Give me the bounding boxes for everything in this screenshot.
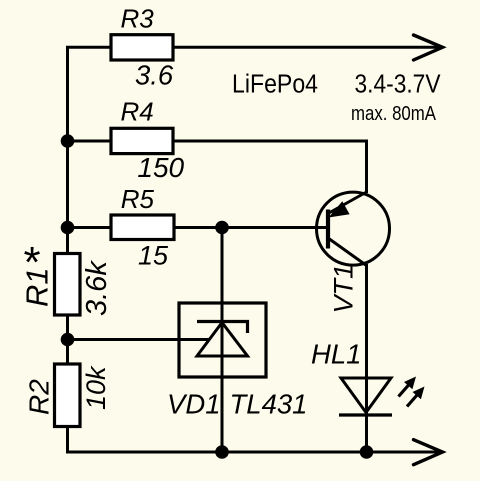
svg-text:R5: R5 — [121, 184, 155, 214]
svg-text:R3: R3 — [121, 4, 155, 34]
wire bottom rail — [66, 451, 438, 454]
node divider — [61, 333, 75, 347]
arrow top output — [414, 35, 443, 60]
svg-text:max. 80mA: max. 80mA — [351, 103, 437, 125]
svg-text:*: * — [24, 238, 41, 287]
svg-text:3.6: 3.6 — [135, 60, 174, 91]
node R4 tap — [61, 134, 75, 148]
svg-text:VD1: VD1 — [167, 389, 221, 420]
diode VD1 symbol — [197, 322, 248, 357]
wire left rail mid — [66, 314, 69, 365]
svg-text:TL431: TL431 — [230, 389, 308, 420]
svg-text:HL1: HL1 — [311, 339, 361, 370]
svg-text:R2: R2 — [24, 379, 55, 415]
svg-text:15: 15 — [138, 241, 169, 271]
svg-text:3.6k: 3.6k — [81, 260, 113, 316]
svg-text:R4: R4 — [121, 97, 154, 127]
wire divider to VD1 ref — [68, 338, 211, 341]
arrow bottom output — [414, 440, 443, 465]
node LED rail — [360, 445, 374, 459]
svg-text:150: 150 — [137, 152, 184, 183]
svg-text:10k: 10k — [81, 365, 111, 410]
resistor R4 — [111, 128, 173, 153]
node anode rail — [215, 445, 229, 459]
wire TL431 cathode-anode vertical — [221, 228, 224, 453]
resistor R5 — [111, 215, 174, 240]
LED HL1 — [339, 377, 425, 416]
svg-text:VT1: VT1 — [329, 264, 359, 314]
transistor VT1 — [317, 192, 390, 266]
svg-text:LiFePo4: LiFePo4 — [232, 71, 318, 99]
resistor R3 — [111, 35, 173, 60]
node base/cathode — [215, 221, 229, 235]
wire left rail — [66, 46, 69, 254]
svg-text:3.4-3.7V: 3.4-3.7V — [355, 71, 441, 99]
wire R4 to emitter — [68, 141, 367, 193]
wire collector to LED to rail — [365, 264, 368, 452]
shunt regulator VD1 TL431 box — [179, 303, 266, 377]
wire top output — [66, 46, 438, 49]
wire R5 to base — [68, 226, 328, 229]
resistor R1 — [55, 254, 81, 316]
resistor R2 — [55, 364, 81, 427]
wire left rail bottom — [66, 426, 69, 452]
node R5 tap — [61, 221, 75, 235]
